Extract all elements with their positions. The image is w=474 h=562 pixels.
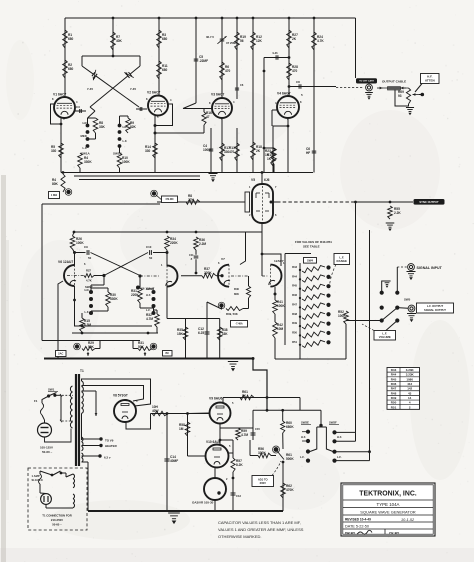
wire V4 grid	[272, 109, 277, 111]
wire sync line	[273, 201, 277, 203]
wire LF cross 2	[104, 253, 148, 276]
svg-text:R43: R43	[391, 368, 397, 372]
potentiometer R29	[75, 344, 79, 348]
svg-text:2.2M: 2.2M	[199, 242, 206, 246]
resistor R32	[155, 314, 160, 327]
wire V7A plate	[240, 232, 246, 265]
svg-text:R49: R49	[292, 321, 297, 325]
svg-text:REVISED 10-4-49: REVISED 10-4-49	[345, 517, 371, 521]
svg-text:OTHERWISE MARKED.: OTHERWISE MARKED.	[218, 534, 262, 539]
svg-text:12K: 12K	[256, 39, 263, 43]
resistor R18	[251, 142, 256, 160]
svg-text:43: 43	[408, 391, 412, 395]
svg-text:10-1-52: 10-1-52	[401, 518, 415, 522]
svg-text:100K: 100K	[277, 304, 285, 308]
svg-text:SLO-BLO: SLO-BLO	[32, 479, 43, 482]
resistor R5	[59, 143, 64, 158]
ground cathode bus	[209, 173, 218, 175]
label L.F. RANGE box	[334, 254, 350, 265]
resistor R14	[153, 143, 158, 158]
resistor R35	[185, 319, 187, 359]
svg-text:L.F.: L.F.	[123, 139, 128, 143]
pin box V5 grid	[245, 192, 250, 212]
tube V6 section A	[64, 265, 75, 286]
resistor R41	[273, 300, 278, 314]
wire V1 suppressor	[51, 104, 62, 124]
wire B+ line	[151, 413, 210, 415]
wire atten link	[415, 84, 422, 93]
tube V7 section A	[218, 265, 229, 287]
choke L1 10H	[152, 411, 168, 415]
svg-text:210-250V: 210-250V	[51, 518, 63, 522]
tube V4	[277, 96, 299, 118]
wire V1 grid cross	[90, 107, 95, 111]
label SYNC OUTPUT	[414, 199, 445, 205]
resistor R7	[112, 18, 114, 56]
wire V5 grid line	[157, 201, 245, 203]
capacitor C5	[194, 58, 199, 60]
resistor R8	[93, 118, 98, 133]
svg-text:-7.48A: -7.48A	[235, 323, 243, 326]
svg-text:CK BY: CK BY	[389, 532, 400, 536]
capacitor C6	[312, 150, 317, 152]
svg-text:ATTEN: ATTEN	[425, 79, 435, 83]
wire pot bottom loop	[395, 90, 409, 107]
transformer primary winding	[70, 386, 72, 392]
resistor R57	[229, 452, 234, 454]
svg-text:R40: R40	[234, 287, 239, 291]
wire V6A plate down	[74, 286, 76, 326]
svg-text:C11: C11	[189, 253, 194, 257]
resistor R59	[220, 427, 238, 429]
wire plate jog	[299, 398, 301, 411]
svg-text:15K: 15K	[177, 332, 184, 336]
wire V7B cathode down	[274, 287, 276, 300]
svg-text:C10: C10	[146, 245, 152, 249]
ground R55	[386, 222, 395, 224]
svg-text:T1: T1	[80, 369, 84, 373]
svg-text:CAPACITOR VALUES LESS THAN: CAPACITOR VALUES LESS THAN 1 ARE MF,	[218, 520, 301, 525]
svg-text:472-MC: 472-MC	[165, 198, 174, 201]
wire V3 grid return	[155, 132, 204, 134]
ground signal input	[407, 271, 416, 273]
resistor R4	[78, 153, 83, 168]
capacitor C3A grid V2	[136, 108, 147, 110]
svg-text:OA3/VR 105-30: OA3/VR 105-30	[192, 501, 214, 505]
svg-text:HEATER: HEATER	[105, 444, 118, 448]
svg-text:SIGNAL INPUT: SIGNAL INPUT	[417, 266, 443, 270]
tube V9	[210, 403, 231, 424]
svg-text:100M: 100M	[203, 148, 211, 152]
wire V9 plate	[222, 398, 224, 403]
svg-text:6J6: 6J6	[264, 178, 270, 182]
potentiometer R31A	[138, 347, 152, 351]
resistor R17	[221, 118, 223, 173]
svg-text:V1 6AC7: V1 6AC7	[53, 93, 67, 97]
svg-text:V8 5Y3GT: V8 5Y3GT	[113, 394, 128, 398]
svg-text:470: 470	[225, 69, 231, 73]
svg-text:SW2F: SW2F	[329, 421, 337, 425]
wire C5 net	[195, 18, 197, 103]
connector SIGNAL INPUT	[408, 264, 415, 271]
svg-text:680: 680	[68, 37, 74, 41]
capacitor C3 grid V1	[75, 110, 86, 112]
resistor R38	[219, 319, 221, 359]
svg-text:SW5: SW5	[404, 298, 411, 302]
wire selector tap	[60, 395, 62, 421]
svg-text:330K: 330K	[84, 160, 92, 164]
transformer T1 core	[75, 374, 77, 466]
potentiometer R39	[219, 303, 223, 307]
wire V5 cath to V7B	[261, 232, 263, 276]
wire V6B grid dashdot	[140, 275, 160, 277]
wire V2 cathode	[154, 115, 156, 173]
resistor R47	[299, 306, 301, 308]
wire V8 cathode out	[126, 414, 151, 430]
svg-text:L.F.: L.F.	[146, 308, 151, 312]
resistor R34	[165, 236, 170, 250]
svg-text:82K: 82K	[130, 125, 137, 129]
ground signal output	[407, 313, 416, 315]
svg-text:R39, 50K: R39, 50K	[226, 312, 238, 316]
resistor R43	[299, 269, 301, 271]
resistor R44	[299, 278, 301, 280]
svg-text:R48: R48	[292, 312, 297, 316]
resistor R45	[299, 288, 301, 290]
wire SW5 feed	[396, 267, 398, 293]
svg-text:100K: 100K	[338, 314, 346, 318]
resistor R11	[157, 61, 162, 79]
label H.F. ATTEN box	[421, 74, 440, 84]
svg-text:RANGE: RANGE	[337, 259, 348, 263]
svg-text:V9 6AU6: V9 6AU6	[209, 397, 223, 401]
svg-text:R44: R44	[391, 373, 397, 377]
svg-text:6.3 v: 6.3 v	[104, 456, 111, 460]
svg-text:R51: R51	[391, 405, 397, 409]
svg-text:3.23K: 3.23K	[406, 368, 415, 372]
resistor R40	[248, 276, 250, 286]
resistor R48	[299, 316, 301, 318]
svg-text:36-7.5: 36-7.5	[206, 35, 214, 39]
wire bus step	[253, 359, 267, 411]
wire V5 top	[261, 173, 263, 185]
resistor R58	[185, 422, 190, 436]
potentiometer R4A 80K	[61, 174, 65, 192]
svg-text:4.7M: 4.7M	[146, 317, 153, 321]
ground bottom bus	[88, 510, 283, 512]
wire V9 grid	[188, 412, 209, 415]
svg-text:50K: 50K	[88, 345, 95, 349]
svg-text:470K: 470K	[286, 488, 294, 492]
capacitor C11	[194, 255, 199, 257]
svg-text:9-26: 9-26	[273, 52, 279, 55]
svg-text:V3 6AC7: V3 6AC7	[211, 93, 225, 97]
wire left bus	[41, 204, 43, 341]
resistor R30	[106, 292, 111, 307]
svg-text:SW4: SW4	[307, 258, 314, 262]
tube V10	[206, 445, 229, 468]
wire V1 plate feed	[64, 18, 66, 97]
wire output feed	[355, 18, 357, 78]
svg-text:SIGNAL OUTPUT: SIGNAL OUTPUT	[424, 308, 446, 312]
wire V2 screen loop	[155, 104, 173, 126]
tube V8 rectifier	[114, 400, 136, 422]
wire V7B grid dashdot	[262, 275, 269, 277]
resistor R1	[63, 30, 68, 48]
svg-text:R49: R49	[391, 396, 397, 400]
capacitor C4A	[210, 128, 212, 173]
cathode bus V2 V3 V4	[152, 172, 313, 174]
svg-text:40W: 40W	[152, 409, 159, 413]
svg-text:H.F.: H.F.	[337, 435, 342, 439]
wire ladder rail	[299, 263, 301, 341]
svg-text:470: 470	[229, 150, 235, 154]
svg-text:VALUES 1 AND GREATER ARE MM: VALUES 1 AND GREATER ARE MMF, UNLESS	[218, 527, 304, 532]
wire V2 plate feed	[158, 18, 160, 95]
svg-text:500K: 500K	[286, 457, 294, 461]
svg-text:100K: 100K	[122, 160, 130, 164]
label adj 200V box	[252, 476, 274, 487]
transformer HV secondary	[82, 381, 84, 386]
svg-text:80K: 80K	[52, 182, 59, 186]
tube V1	[54, 97, 75, 118]
potentiometer R7A	[152, 191, 156, 195]
svg-text:R50: R50	[391, 401, 397, 405]
label L.F. VOLUME box	[374, 331, 396, 341]
ground SW5	[382, 281, 387, 293]
svg-text:1M: 1M	[179, 427, 184, 431]
svg-text:220K: 220K	[170, 241, 178, 245]
svg-text:.22MF: .22MF	[199, 59, 208, 63]
wire V4 cathode loop	[273, 118, 288, 173]
wire V3 plate	[221, 18, 223, 98]
resistor R15	[264, 147, 274, 149]
wire SW5 blade	[382, 308, 398, 321]
wire grid return top	[42, 203, 160, 205]
resistor R56 sw	[258, 453, 271, 458]
wire V3 screen net	[263, 120, 265, 173]
capacitor C7	[288, 56, 291, 59]
svg-text:OUTPUT CABLE: OUTPUT CABLE	[382, 80, 406, 84]
wire HV bottom	[81, 413, 83, 440]
winding alt 2	[73, 494, 75, 499]
svg-text:680: 680	[162, 37, 168, 41]
wire V6A cathode	[58, 281, 63, 358]
svg-text:4.7K: 4.7K	[317, 39, 324, 43]
svg-text:H.F.: H.F.	[146, 293, 151, 297]
svg-text:680: 680	[68, 67, 74, 71]
svg-text:R47: R47	[292, 302, 297, 306]
resistor R51	[299, 344, 301, 346]
svg-text:40K: 40K	[116, 39, 123, 43]
svg-text:L.F. OUTPUT: L.F. OUTPUT	[427, 304, 444, 308]
wire V7A grid	[181, 275, 202, 277]
svg-text:L.F.: L.F.	[83, 146, 88, 150]
svg-text:10M: 10M	[277, 327, 284, 331]
switch SW5 contacts	[380, 291, 384, 295]
wire V6A grid dashdot	[67, 275, 84, 277]
title block	[341, 483, 435, 536]
svg-text:1080: 1080	[406, 377, 413, 381]
tube V6 section B	[167, 266, 178, 287]
svg-text:56: 56	[240, 39, 244, 43]
resistor R9	[126, 118, 131, 133]
svg-text:142: 142	[407, 387, 412, 391]
svg-text:C6: C6	[240, 83, 244, 87]
resistor R31	[138, 288, 143, 303]
svg-text:50-60 ~: 50-60 ~	[42, 450, 53, 454]
wire rail 341	[42, 340, 140, 342]
svg-text:R47: R47	[391, 387, 397, 391]
svg-text:ADJ TO: ADJ TO	[258, 477, 268, 481]
resistor R46	[299, 297, 301, 299]
svg-text:7-45: 7-45	[130, 87, 136, 91]
switch SW1C contacts	[89, 290, 93, 294]
svg-text:93: 93	[398, 94, 402, 98]
svg-text:33K: 33K	[99, 125, 106, 129]
wire LF box top	[74, 231, 262, 233]
switch wafer yoke	[310, 427, 317, 452]
svg-text:50: 50	[149, 256, 153, 260]
wire dashed input	[397, 266, 407, 268]
wire dashed to jack	[336, 87, 364, 89]
svg-text:C9: C9	[84, 245, 88, 249]
ground main	[228, 361, 238, 363]
svg-text:R43: R43	[292, 265, 297, 269]
resistor R50	[299, 334, 301, 336]
tube V11 regulator	[204, 478, 226, 500]
svg-text:220K: 220K	[131, 293, 139, 297]
wire feeder 410	[253, 409, 321, 411]
transformer heater winding 2	[82, 453, 84, 458]
pot blob	[66, 190, 70, 194]
capacitor C8 output	[288, 85, 291, 88]
potentiometer R61A	[274, 447, 279, 452]
svg-text:R44: R44	[292, 274, 297, 278]
plug P1	[38, 423, 52, 437]
capacitor C4 variable trimmer	[220, 38, 225, 40]
wire V6B plate	[166, 286, 168, 319]
svg-text:SEE TABLE: SEE TABLE	[303, 245, 320, 249]
svg-text:3.23K: 3.23K	[406, 373, 415, 377]
wire rail 326	[74, 325, 152, 327]
wire R52 to SW5	[346, 320, 382, 322]
wire V9 cath	[219, 424, 221, 446]
capacitor C12	[206, 319, 208, 359]
svg-text:2K: 2K	[256, 149, 261, 153]
wire R56 left	[250, 455, 258, 457]
svg-text:220K: 220K	[204, 271, 212, 275]
wire V7A grid dashdot	[231, 275, 249, 277]
svg-text:200V: 200V	[260, 481, 266, 485]
tube V3	[212, 98, 232, 118]
resistor R61	[240, 395, 254, 400]
svg-text:L.F.: L.F.	[85, 310, 90, 314]
svg-text:8K: 8K	[242, 394, 247, 398]
wire ladder bottom	[299, 341, 301, 359]
ground HF atten	[406, 107, 414, 109]
resistor R36	[194, 237, 199, 250]
wire V5 cathode to LF	[261, 223, 263, 232]
wire top B+ bus	[65, 17, 356, 19]
resistor R8A	[186, 200, 200, 205]
svg-text:1K: 1K	[265, 153, 270, 157]
tube V7 section B	[271, 265, 282, 287]
switch SW1A contacts	[86, 124, 90, 128]
svg-text:TO V9: TO V9	[105, 439, 114, 443]
coupling box top	[82, 55, 140, 57]
resistor R3	[157, 30, 162, 48]
svg-text:680K: 680K	[286, 425, 294, 429]
svg-text:R46: R46	[292, 293, 297, 297]
capacitor C13	[231, 492, 236, 494]
dashed alt connection box	[28, 468, 87, 530]
svg-text:330: 330	[145, 149, 151, 153]
label BC box	[163, 351, 173, 357]
svg-text:2K: 2K	[292, 37, 297, 41]
resistor R62	[281, 483, 286, 498]
wire bus A	[355, 202, 357, 432]
wire V6A plate lead	[74, 253, 76, 266]
svg-text:L.F.: L.F.	[337, 455, 342, 459]
svg-text:2.2K: 2.2K	[394, 211, 401, 215]
svg-text:2AC: 2AC	[58, 351, 63, 355]
svg-text:1 AMP: 1 AMP	[32, 474, 40, 478]
label output jack	[356, 78, 377, 83]
svg-text:50-60 ~: 50-60 ~	[52, 523, 62, 527]
wire HV loop outer	[82, 379, 151, 406]
capacitor C1 variable	[82, 66, 93, 74]
svg-text:470: 470	[292, 69, 298, 73]
wire SW2F links	[335, 431, 356, 433]
resistor R49	[299, 325, 301, 327]
svg-text:H.F.: H.F.	[83, 121, 88, 125]
svg-text:680: 680	[162, 68, 168, 72]
wire V10 right net	[232, 440, 234, 453]
label SW4	[304, 258, 317, 264]
resistor R42	[273, 322, 278, 338]
svg-text:R48: R48	[391, 391, 397, 395]
label 1 meg box	[49, 192, 60, 199]
svg-text:R50: R50	[292, 330, 297, 334]
svg-text:SW2E: SW2E	[301, 421, 309, 425]
svg-text:50K: 50K	[138, 345, 145, 349]
resistor R15A	[80, 318, 85, 332]
value table	[387, 368, 420, 410]
ladder wafer outline	[285, 253, 311, 255]
svg-text:1 MΩ: 1 MΩ	[51, 194, 57, 197]
transformer heater winding 1	[82, 437, 84, 442]
svg-text:BC: BC	[165, 352, 169, 355]
wire V6B plate lead	[166, 253, 168, 267]
resistor R6	[220, 62, 225, 80]
resistor R52	[344, 311, 349, 324]
resistor R23	[271, 148, 276, 166]
svg-text:4.7K: 4.7K	[86, 279, 92, 283]
svg-text:8.2K: 8.2K	[236, 463, 243, 467]
plug P1 alt	[41, 494, 52, 505]
wire range dashed	[329, 265, 336, 291]
svg-text:40MF: 40MF	[170, 459, 178, 463]
wire plug to primary return	[45, 429, 72, 443]
wire V4 plate feed	[288, 18, 290, 96]
switch SW1B contacts	[118, 124, 122, 128]
svg-text:27K: 27K	[188, 198, 195, 202]
wire transformer to bus	[87, 462, 89, 511]
svg-text:T1 CONNECTION FOR: T1 CONNECTION FOR	[42, 514, 72, 518]
resistor R55	[388, 206, 393, 219]
label LAC box	[56, 351, 67, 357]
